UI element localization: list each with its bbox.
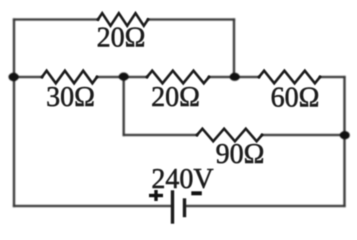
svg-text:90Ω: 90Ω: [216, 139, 265, 170]
node D junction dot: [340, 131, 350, 139]
svg-text:30Ω: 30Ω: [46, 82, 95, 113]
wire: bottom left to battery: [14, 205, 172, 207]
battery plus sign horizontal bar: [149, 194, 163, 197]
battery plus sign vertical bar: [154, 190, 157, 201]
svg-text:60Ω: 60Ω: [271, 83, 320, 114]
wire: 90ohm row left stub: [124, 134, 197, 136]
resistor 60ohm zigzag: [259, 71, 320, 84]
resistor top 20ohm zigzag: [98, 13, 148, 26]
wire: between 20ohm and 60ohm: [209, 76, 259, 78]
wire: right vertical rail: [343, 77, 345, 206]
node B junction dot: [119, 73, 129, 81]
svg-text:20Ω: 20Ω: [97, 23, 146, 54]
svg-text:20Ω: 20Ω: [151, 82, 200, 113]
resistor 30ohm zigzag: [42, 71, 97, 84]
battery V1 long plate: [171, 192, 174, 222]
wire: battery to bottom right: [186, 205, 345, 207]
wire: top-right vertical drop: [233, 20, 235, 78]
resistor middle 20ohm zigzag: [147, 71, 209, 84]
node C junction dot: [230, 73, 240, 81]
wire: drop from node B to 90ohm row: [123, 77, 125, 135]
battery minus sign: [191, 191, 202, 195]
node A junction dot: [9, 73, 19, 81]
wire: top branch right segment: [148, 18, 234, 20]
svg-text:240V: 240V: [151, 164, 213, 195]
wire: top branch left segment: [14, 18, 98, 20]
wire: middle row left stub: [14, 76, 42, 78]
wire: 90ohm to right rail: [262, 134, 345, 136]
battery V1 short plate: [183, 200, 186, 216]
wire: left vertical rail: [13, 20, 15, 207]
wire: between 30ohm and 20ohm: [97, 76, 147, 78]
wire: 60ohm to right rail: [320, 76, 345, 78]
resistor 90ohm zigzag: [197, 129, 262, 142]
